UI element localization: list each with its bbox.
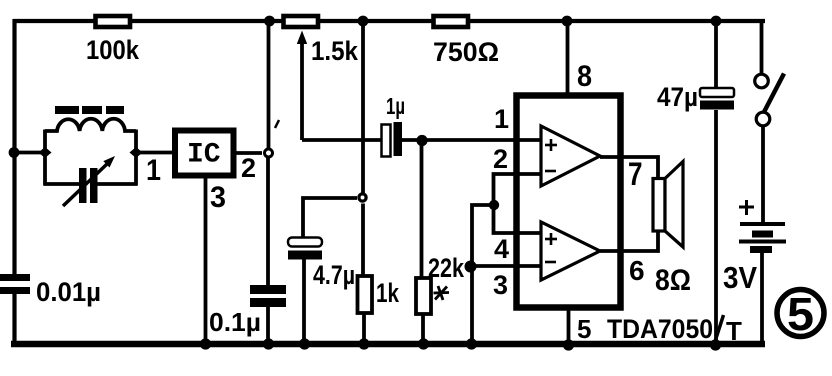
wire bottom ground rail xyxy=(11,341,765,348)
wiper arrow of potentiometer xyxy=(300,42,304,140)
svg-text:8: 8 xyxy=(577,60,592,93)
IC (detector) box xyxy=(175,131,234,176)
svg-text:2: 2 xyxy=(493,144,508,174)
wire 1u to pin 1 xyxy=(402,138,541,142)
junction ring at 4.7u node xyxy=(359,194,366,201)
svg-text:3: 3 xyxy=(210,181,226,214)
switch contact top xyxy=(755,74,769,88)
wire tank to IC pin 1 xyxy=(136,151,172,155)
wire battery to ground rail xyxy=(760,253,764,345)
wire left rail to tank xyxy=(13,151,42,155)
tank loop bottom wire xyxy=(44,182,81,186)
junction dot top rail at 1.5k branch xyxy=(264,16,275,27)
wire 22k branch vertical xyxy=(420,140,424,278)
svg-text:1: 1 xyxy=(494,104,509,134)
resistor 1k xyxy=(358,276,373,313)
capacitor 4.7u positive plate xyxy=(288,238,322,247)
tank loop left wall xyxy=(43,130,47,186)
node left of tank (diamond) xyxy=(39,147,52,158)
capacitor 0.1u plates xyxy=(250,285,286,294)
wire supply branch vertical x268 upper xyxy=(267,21,271,148)
resistor 22k xyxy=(416,278,431,314)
capacitor 47u positive plate xyxy=(700,88,734,97)
op-amp A1 minus input xyxy=(545,170,556,173)
svg-text:2: 2 xyxy=(241,153,256,183)
svg-text:TDA7050: TDA7050 xyxy=(607,314,713,344)
svg-text:1µ: 1µ xyxy=(386,93,405,119)
svg-text:8Ω: 8Ω xyxy=(655,264,691,297)
capacitor 1u left plate xyxy=(382,125,391,157)
junction dot after 1u xyxy=(416,135,427,146)
junction dot top rail at 1k branch xyxy=(358,16,369,27)
op-amp A2 minus input xyxy=(545,261,556,264)
wire tie to ground branch xyxy=(472,205,494,344)
wire pin 3 of TDA7050 xyxy=(471,264,541,268)
capacitor 4.7u negative plate xyxy=(288,251,322,260)
svg-text:0.01µ: 0.01µ xyxy=(36,277,101,307)
stray mark (apostrophe) xyxy=(275,120,279,128)
inductor L1 coil xyxy=(45,119,136,131)
wire ring to 4.7u xyxy=(303,198,357,238)
junction dot pins 2-4 tie xyxy=(489,200,499,210)
svg-text:100k: 100k xyxy=(86,35,140,65)
battery plus sign xyxy=(739,200,754,215)
node right of tank (diamond) xyxy=(130,147,143,158)
wire IC pin 3 to ground xyxy=(204,178,208,344)
svg-text:5: 5 xyxy=(787,288,814,340)
junction dot left rail at tank xyxy=(9,147,20,158)
svg-text:1.5k: 1.5k xyxy=(311,36,359,66)
junction dot ground at 0.1u xyxy=(263,338,274,349)
junction dot ground at 1k xyxy=(358,338,369,349)
junction dot top rail at pin 8 xyxy=(562,16,573,27)
figure number circle 5 xyxy=(777,290,824,337)
wire 4.7u to ground xyxy=(302,259,306,344)
inductor core bars xyxy=(55,106,79,114)
variable capacitor arrow xyxy=(63,164,107,206)
speaker cone xyxy=(665,162,683,248)
svg-text:47µ: 47µ xyxy=(657,82,698,112)
junction ring at IC pin 2 node xyxy=(265,149,273,157)
wire 47u branch upper xyxy=(714,21,718,89)
svg-text:4.7µ: 4.7µ xyxy=(313,260,355,290)
battery cell 1 negative plate xyxy=(752,231,773,238)
svg-text:3V: 3V xyxy=(723,260,757,295)
TDA7050 IC box xyxy=(517,96,621,308)
wire top rail corner to switch xyxy=(760,19,764,74)
switch lever xyxy=(764,74,784,113)
junction dot ground at IC pin3 xyxy=(200,338,211,349)
wire supply branch vertical x268 lower xyxy=(266,158,270,286)
junction dot ground at pin 5 xyxy=(563,339,574,350)
wire pin 1 into TDA7050 xyxy=(513,138,541,142)
svg-text:1k: 1k xyxy=(376,278,400,308)
junction dot ground at pins tie xyxy=(466,338,477,349)
junction dot ground at 22k xyxy=(418,338,429,349)
svg-text:4: 4 xyxy=(494,234,509,264)
svg-text:750Ω: 750Ω xyxy=(433,37,499,67)
wire top rail xyxy=(13,19,765,23)
wire 0.1u to ground xyxy=(266,307,270,344)
op-amp A2 (bottom) xyxy=(541,222,600,280)
battery cell 2 positive plate xyxy=(739,240,786,244)
capacitor 47u negative plate xyxy=(700,101,734,110)
wire 1k to ground xyxy=(362,313,366,344)
svg-text:1: 1 xyxy=(146,154,161,187)
op-amp A2 plus input xyxy=(545,233,557,245)
wire left rail upper xyxy=(12,19,16,275)
wire pin 2 of TDA7050 xyxy=(494,174,542,233)
capacitor 0.01u plates xyxy=(0,274,30,281)
wire pin 7 to speaker xyxy=(600,157,658,179)
wire left rail lower xyxy=(12,293,16,345)
label /T suffix xyxy=(715,315,724,343)
junction dot top rail at 47u branch xyxy=(711,16,722,27)
wire ring to 1k xyxy=(361,204,365,277)
svg-text:3: 3 xyxy=(493,270,508,300)
svg-text:5: 5 xyxy=(577,314,591,344)
wire pin 5 to ground xyxy=(567,308,571,344)
wire IC pin 2 to supply node xyxy=(235,151,262,155)
wire 22k to ground xyxy=(421,314,425,344)
op-amp A1 (top) xyxy=(541,126,600,186)
junction dot ground at 4.7u xyxy=(299,338,310,349)
label asterisk xyxy=(434,286,450,300)
wire 47u to ground xyxy=(714,110,718,344)
junction dot pin 3 node xyxy=(465,261,477,273)
battery cell 1 positive plate xyxy=(740,222,785,226)
speaker driver xyxy=(653,179,665,232)
capacitor 1u right plate xyxy=(394,122,403,156)
svg-text:0.1µ: 0.1µ xyxy=(209,307,261,337)
wire pin 6 to speaker xyxy=(600,230,658,251)
wire wiper to 1u capacitor xyxy=(302,138,382,142)
tank loop right wall xyxy=(134,130,138,186)
wire pin 8 to top rail xyxy=(566,21,570,95)
svg-text:T: T xyxy=(726,316,742,346)
potentiometer 1.5k xyxy=(284,16,319,27)
svg-text:6: 6 xyxy=(629,255,645,286)
svg-text:IC: IC xyxy=(187,140,221,171)
op-amp A1 plus input xyxy=(545,139,557,151)
wire switch to battery xyxy=(761,126,765,223)
junction dot ground at 47u xyxy=(710,339,721,350)
battery cell 2 negative plate xyxy=(750,246,772,253)
svg-text:7: 7 xyxy=(628,156,643,192)
variable capacitor C1 plates xyxy=(79,168,87,203)
svg-text:22k: 22k xyxy=(428,253,465,283)
switch contact bottom xyxy=(756,112,770,126)
resistor 100k xyxy=(96,16,131,27)
wire 1.5k branch vertical x363 upper xyxy=(361,21,365,193)
resistor 750ohm xyxy=(434,16,469,27)
